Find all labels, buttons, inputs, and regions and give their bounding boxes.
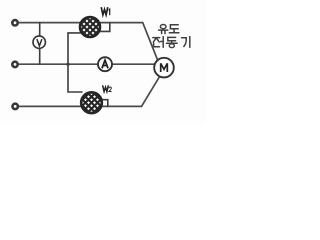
wattmeter W1 — [79, 16, 101, 38]
ammeter A — [98, 57, 112, 71]
label 유도 전동기 (induction motor), hand-drawn hangul — [153, 25, 190, 48]
wire top line — [19, 22, 143, 24]
terminal 2 — [12, 62, 17, 67]
wire W2 right stub — [101, 100, 108, 107]
glyph 전 — [153, 37, 163, 48]
label W2 — [103, 85, 112, 91]
wattmeter W2 — [81, 92, 103, 114]
voltmeter V — [33, 36, 45, 48]
wire bottom diagonal to motor — [142, 77, 160, 106]
motor M — [154, 58, 174, 78]
wire W1 right stub — [101, 23, 110, 32]
wire W2 potential connection L — [68, 64, 82, 92]
glyph 기 — [182, 37, 190, 48]
glyph 동 — [167, 37, 178, 47]
glyph 유 — [159, 25, 168, 34]
terminal 1 — [12, 20, 17, 25]
wire bottom line — [19, 105, 142, 107]
terminal 3 — [13, 104, 18, 109]
wire middle line — [19, 63, 155, 65]
wire top diagonal to motor — [143, 23, 158, 61]
wire voltmeter drop — [39, 23, 41, 65]
glyph 도 — [169, 25, 179, 33]
junction at middle line — [66, 63, 69, 66]
wire W1 potential connection L — [68, 33, 81, 64]
label W1 — [101, 7, 110, 15]
